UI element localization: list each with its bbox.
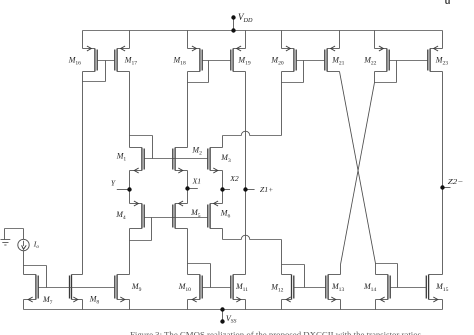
- wire M6 drain drop: [222, 229, 224, 240]
- transistor M5: [173, 201, 188, 229]
- wire M22 gate-drain tie riser: [396, 61, 398, 83]
- wire M14 source drop: [375, 300, 377, 310]
- node VSS terminal: [220, 319, 224, 323]
- transistor M10: [188, 275, 203, 303]
- wire M1 gate-drain tie: [130, 135, 153, 137]
- wire Io to ground wire: [5, 228, 24, 230]
- wire M4 drain to M9 drain: [129, 229, 131, 275]
- wire M7-M8-M9 gate line: [39, 287, 115, 289]
- wire M12 gate-drain tie: [282, 264, 305, 266]
- wire M3 drain riser: [222, 136, 224, 148]
- transistor M20: [282, 46, 297, 72]
- transistor M9: [115, 275, 130, 303]
- wire Y node column: [129, 171, 131, 204]
- wire M17 drain down: [129, 72, 131, 136]
- node VDD rail junction: [231, 28, 235, 32]
- wire Y terminal stub: [117, 189, 130, 191]
- wire M20-M21 gate line: [296, 60, 325, 62]
- svg-text:Z2−: Z2−: [448, 177, 464, 186]
- wire X1 node column: [187, 171, 189, 204]
- svg-text:X1: X1: [192, 177, 201, 186]
- transistor M15: [426, 275, 442, 303]
- wire M6 drain to M12 drain: [223, 235, 282, 239]
- svg-text:X2: X2: [229, 174, 239, 183]
- wire Io top wire: [23, 229, 25, 240]
- node VDD terminal: [231, 15, 235, 19]
- node X1: [185, 186, 189, 190]
- wire M20 gate-drain tie riser: [303, 61, 305, 83]
- wire M20 gate-drain tie: [282, 82, 304, 84]
- wire M10 gate-drain tie riser: [210, 264, 212, 288]
- wire M20 source drop: [281, 31, 283, 49]
- wire M14-M15 gate line: [390, 287, 426, 289]
- wire M1 gate-drain tie riser: [152, 136, 154, 159]
- wire M18 source drop: [187, 31, 189, 49]
- wire M12-M13 gate line: [294, 287, 326, 289]
- wire M8 source drop: [82, 300, 84, 310]
- ground: [1, 229, 11, 246]
- wire M16-M17 gate line: [97, 60, 115, 62]
- VDD stub wire: [233, 18, 235, 31]
- wire M16 drain to M8 drain: [82, 72, 84, 275]
- svg-text:Z1+: Z1+: [260, 185, 274, 194]
- wire M22-M23 gate line: [389, 60, 428, 62]
- wire M1 drain riser: [129, 136, 131, 148]
- transistor M8: [70, 275, 83, 303]
- wire M7 gate-drain tie riser: [46, 266, 48, 288]
- wire M19 source drop: [245, 31, 247, 49]
- svg-text:Figure 3: The CMOS realization: Figure 3: The CMOS realization of the pr…: [130, 330, 422, 335]
- wire M10 source drop: [187, 300, 189, 310]
- wire X2 terminal stub: [223, 189, 231, 191]
- wire M16 gate-drain tie riser: [105, 61, 107, 82]
- wire M14 drain riser: [375, 264, 377, 275]
- transistor M13: [326, 275, 341, 303]
- wire M16 gate-drain tie: [83, 81, 106, 83]
- wire M18 gate-drain tie riser: [208, 61, 210, 83]
- VSS stub wire: [222, 310, 224, 322]
- wire Z1+ terminal stub: [246, 189, 255, 191]
- wire M20 drain down: [281, 72, 283, 136]
- wire M19 drain to M11 drain: [245, 72, 247, 275]
- wire M22 drain diagonal to M13: [341, 83, 375, 265]
- wire M22 drain drop: [374, 72, 376, 83]
- svg-text:u: u: [445, 0, 451, 7]
- transistor M16: [83, 46, 98, 72]
- transistor M14: [376, 275, 391, 303]
- VDD supply rail: [83, 30, 443, 32]
- transistor M11: [231, 275, 246, 303]
- node Z2-: [440, 185, 444, 189]
- wire M13 drain riser: [340, 265, 342, 275]
- transistor M18: [188, 46, 203, 72]
- wire M14 gate-drain tie riser: [397, 264, 399, 288]
- node Z1+: [243, 187, 247, 191]
- wire M12 source drop: [281, 300, 283, 310]
- wire X1 terminal stub: [188, 188, 198, 190]
- wire M4-M5-M6 gate line: [144, 217, 208, 219]
- wire M12 gate-drain tie riser: [304, 265, 306, 288]
- wire M22 gate-drain tie: [375, 82, 397, 84]
- transistor M6: [208, 201, 223, 229]
- wire M23 source drop: [442, 31, 444, 49]
- wire M3 drain to M20 drain: [223, 131, 282, 135]
- transistor M17: [115, 46, 130, 72]
- transistor M19: [231, 46, 246, 72]
- wire M10 gate-drain tie: [188, 263, 211, 265]
- transistor M12: [282, 275, 294, 303]
- wire M18 gate-drain tie: [188, 82, 209, 84]
- wire M18 drain to M2 drain: [187, 72, 189, 148]
- transistor M23: [428, 46, 443, 72]
- node X2: [220, 187, 224, 191]
- wire M21 drain diagonal to M14: [340, 72, 376, 264]
- wire M7 gate-drain tie: [24, 265, 47, 267]
- current source Io: [18, 239, 29, 250]
- transistor M4: [130, 201, 145, 229]
- wire M7 source drop: [23, 300, 25, 310]
- wire M18-M19 gate line: [202, 60, 231, 62]
- transistor M1: [130, 148, 145, 174]
- wire M10-M11 gate line: [202, 287, 231, 289]
- wire Io to M7 drain: [23, 251, 25, 275]
- transistor M7: [24, 275, 39, 303]
- transistor M2: [173, 148, 188, 174]
- transistor M3: [208, 148, 223, 174]
- node VSS rail junction: [220, 307, 224, 311]
- VSS supply rail: [24, 309, 443, 311]
- wire M1-M2-M3 gate line: [144, 158, 208, 160]
- wire M16 source drop: [82, 31, 84, 49]
- wire M5 drain to M10 drain: [187, 229, 189, 275]
- wire M12 drain riser: [281, 240, 283, 275]
- wire M22 source drop: [374, 31, 376, 49]
- wire M17 source drop: [129, 31, 131, 49]
- wire M14 gate-drain tie: [376, 263, 398, 265]
- transistor M21: [325, 46, 340, 72]
- wire Z2- terminal stub: [443, 187, 451, 189]
- wire M11 source drop: [245, 300, 247, 310]
- wire X2 node column: [222, 171, 224, 204]
- node Y: [127, 187, 131, 191]
- wire M4 gate-drain tie: [130, 240, 152, 242]
- wire M15 source drop: [442, 300, 444, 310]
- wire M4 gate-drain tie riser: [151, 218, 153, 241]
- wire M9 source drop: [129, 300, 131, 310]
- wire M23 drain to M15 drain: [442, 72, 444, 275]
- wire M21 source drop: [339, 31, 341, 49]
- wire M13 source drop: [340, 300, 342, 310]
- transistor M22: [375, 46, 390, 72]
